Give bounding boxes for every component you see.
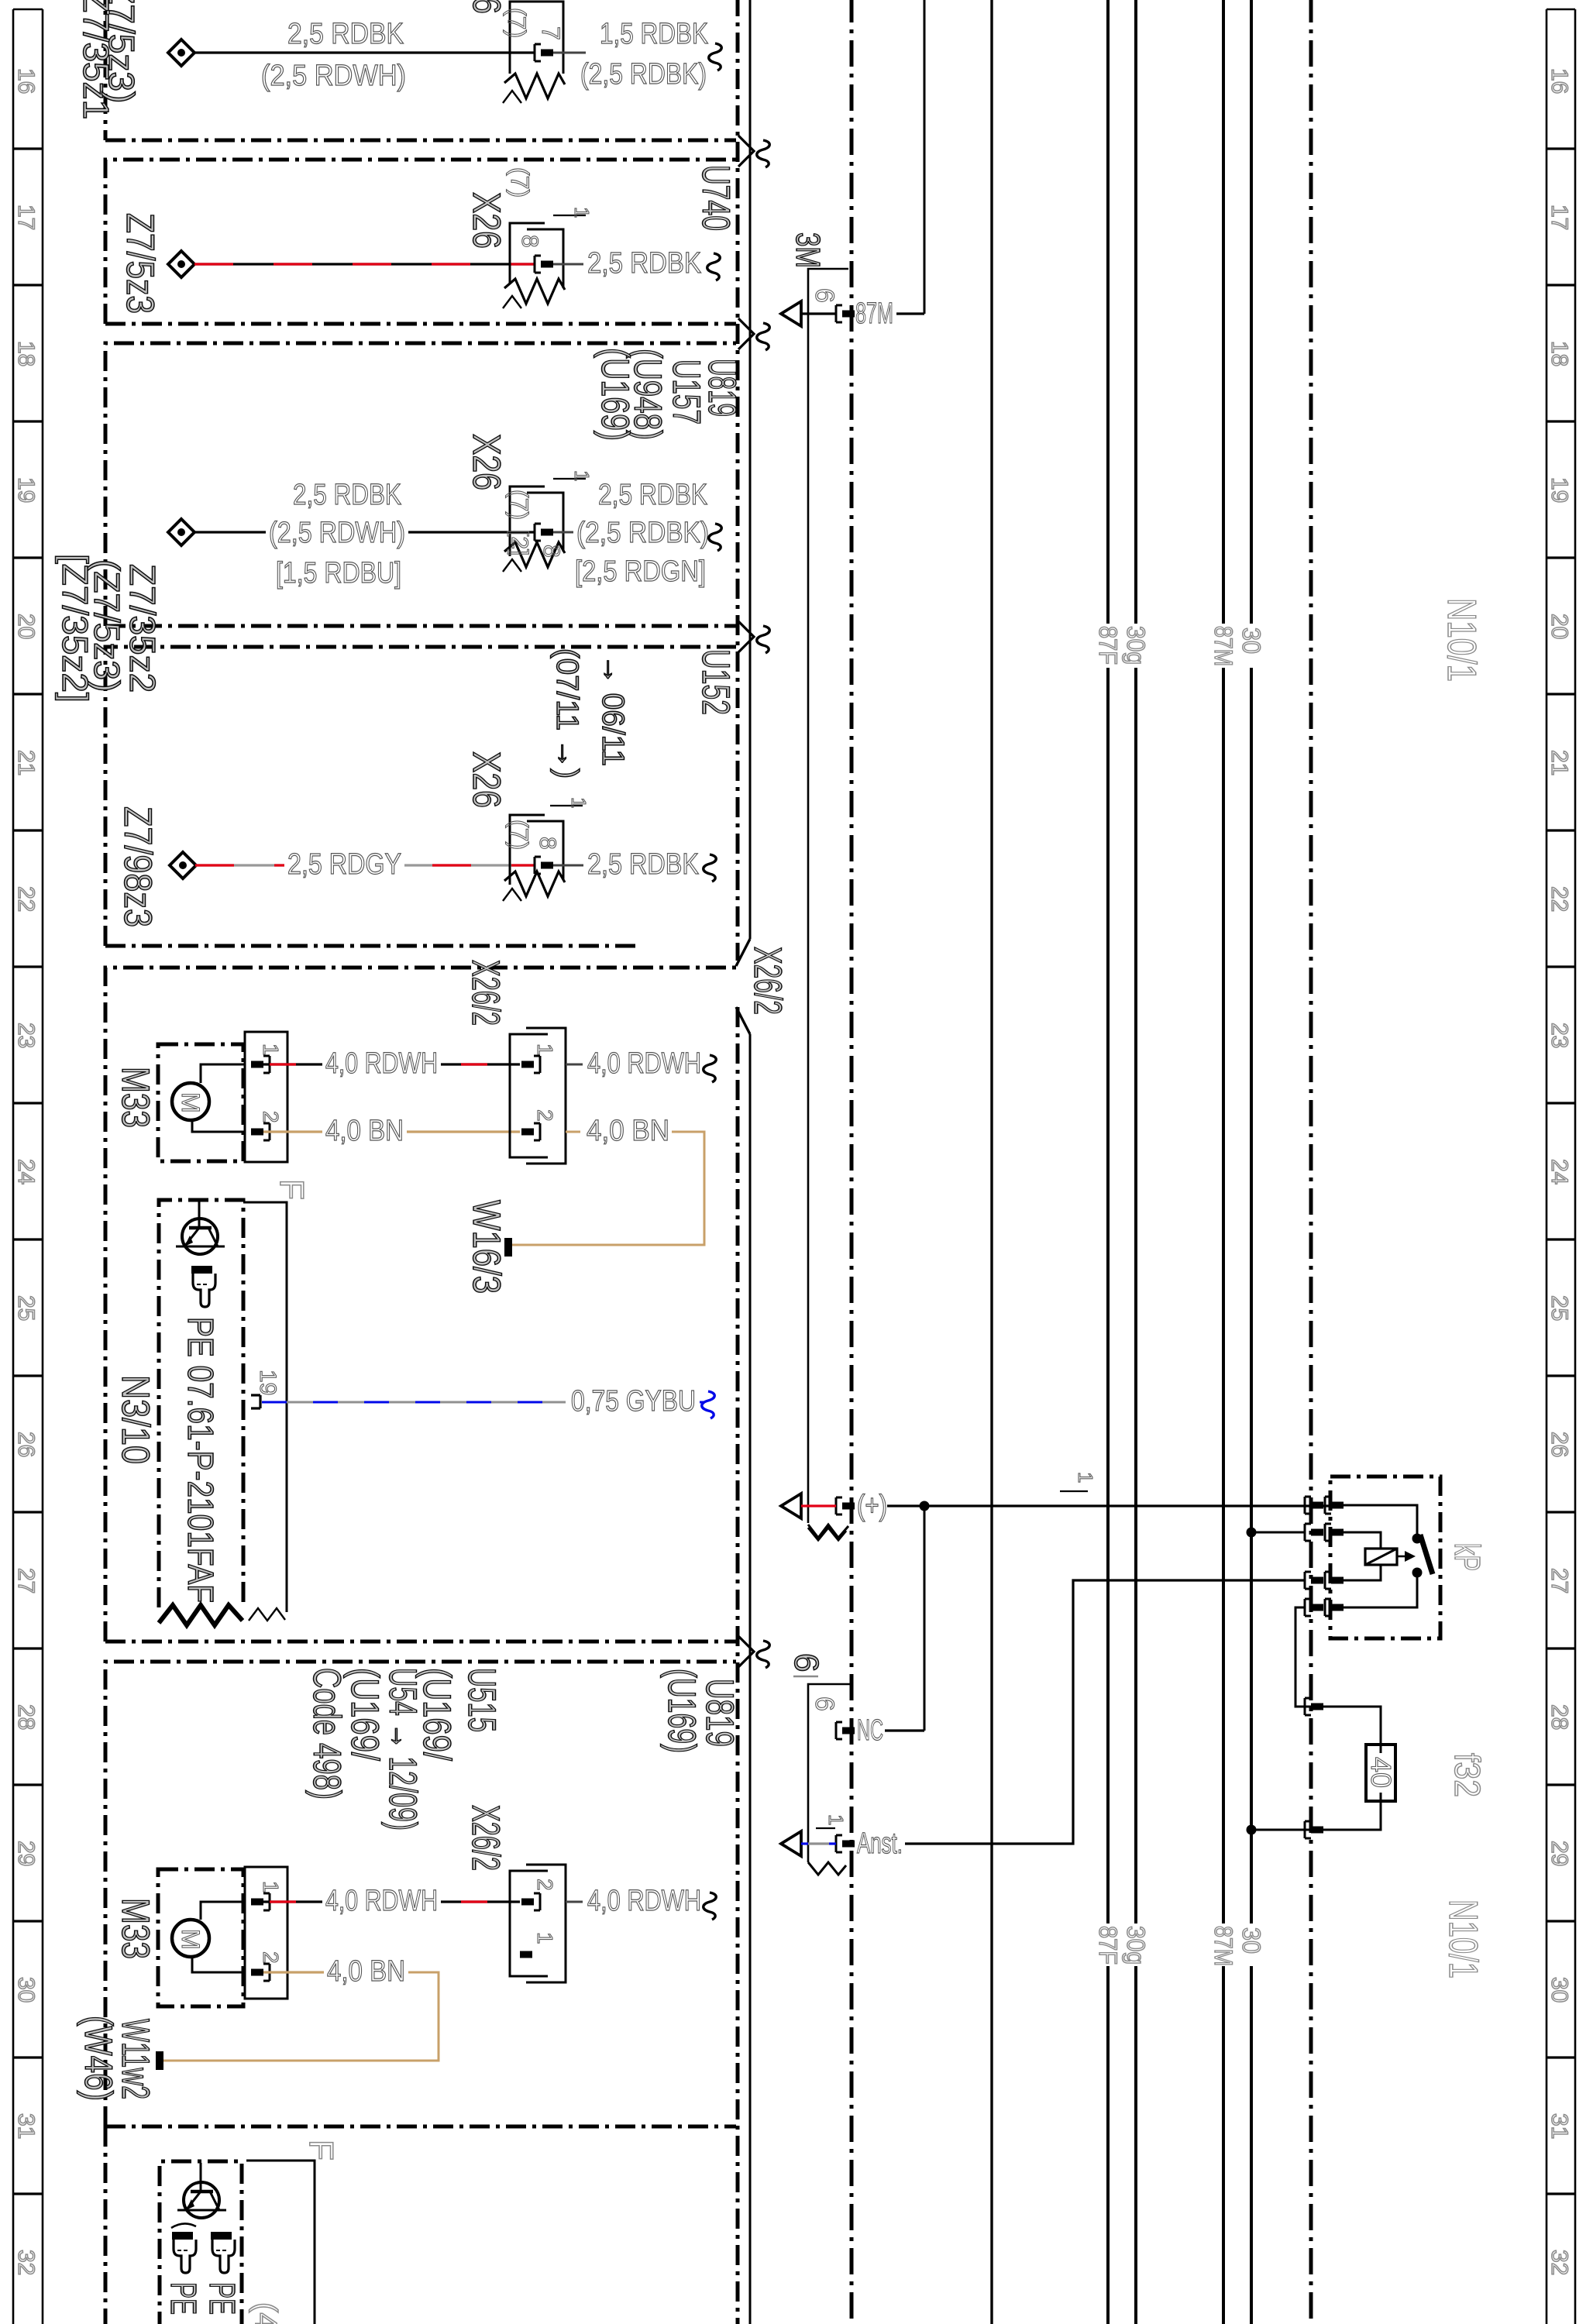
svg-text:1: 1 [567,797,590,808]
svg-text:30: 30 [1547,1977,1572,2003]
connector motor side first box [245,1032,287,1162]
svg-text:NC: NC [857,1714,883,1747]
svg-text:2,5 RDBK: 2,5 RDBK [293,479,401,511]
svg-text:26: 26 [1547,1432,1572,1457]
pin kP 2 [1325,1524,1331,1541]
svg-text:30: 30 [13,1977,39,2003]
node kP contact upper [1412,1534,1423,1544]
svg-text:(2,5 RDBK): (2,5 RDBK) [580,58,707,91]
connector X26 row16 box [510,2,563,74]
node bus30 junction fuse [1247,1825,1257,1835]
svg-text:F: F [302,2140,340,2161]
wire bus30 to coil [1254,1532,1305,1534]
svg-text:Z7/35z2: Z7/35z2 [122,564,163,693]
node kP contact lower [1412,1568,1423,1578]
relay kP lever [1420,1535,1433,1574]
label 0,75 GYBU [568,1387,699,1417]
pin 1 tick row21 [550,805,583,806]
box U515 group rows23-27 borders [105,968,736,1642]
svg-text:(2,5 RDBK): (2,5 RDBK) [576,517,709,549]
wire row21 right [553,865,583,867]
connector X26 row17 box [510,223,563,288]
svg-text:30: 30 [1237,1927,1265,1954]
svg-text:4,0 RDWH: 4,0 RDWH [325,1885,438,1917]
pin tick 1 near Anst [816,1827,835,1829]
svg-text:1: 1 [570,470,594,481]
wire end squiggle row21 [704,854,717,882]
svg-text:87M: 87M [1209,626,1237,666]
X26/2 harness break hooks [736,939,750,966]
svg-text:2: 2 [533,1879,557,1891]
svg-text:X26: X26 [465,751,508,808]
svg-text:21: 21 [1547,750,1572,775]
svg-text:U819: U819 [698,1679,741,1747]
svg-text:X26: X26 [465,192,508,249]
svg-text:(+): (+) [857,1490,887,1522]
pin kP 4 [1325,1599,1331,1616]
arrow Anst continuation [781,1831,801,1856]
label 4,0 RDWH second left [322,1887,441,1917]
connector X26 row19 box [510,486,563,556]
hand symbol PE 1 [172,2232,193,2240]
arrow 87M continuation [781,301,801,326]
svg-text:M: M [177,1092,205,1113]
svg-text:22: 22 [1547,886,1572,912]
svg-text:8: 8 [535,837,560,850]
svg-text:M33: M33 [114,1067,157,1128]
pin row21 contact [535,857,541,874]
wire Anst to kP [905,1580,1305,1844]
module N10/1 outer boundary dash-dot [850,0,854,2324]
svg-text:4,0 BN: 4,0 BN [587,1115,669,1147]
pin 19 N3/10 [251,1395,260,1408]
pin row19 contact [535,524,541,541]
pin kP 1 [1325,1497,1331,1514]
wire (+) to NC riser [924,1506,926,1731]
wire 4,0 RDWH first left [263,1063,520,1065]
svg-text:27: 27 [1547,1568,1572,1593]
label 4,0 BN second [324,1958,408,1987]
svg-text:2,5 RDGY: 2,5 RDGY [287,848,401,881]
bus 87M [1222,0,1225,624]
node Z7/98z3 terminal diamond [170,852,196,878]
svg-text:87F: 87F [1094,1926,1122,1965]
wire NC [885,1729,924,1731]
svg-text:3M: 3M [789,232,827,268]
label 2,5 RDGY [284,851,404,880]
connector 3M housing [808,269,848,1523]
svg-text:31: 31 [1547,2113,1572,2139]
svg-text:87M: 87M [1209,1926,1237,1966]
component M33 motor box [158,1044,243,1161]
svg-text:32: 32 [13,2250,39,2275]
svg-text:(U169): (U169) [594,348,637,441]
wire unlabeled bus [990,0,993,2324]
svg-text:29: 29 [13,1841,39,1866]
ruler right frame [1546,9,1548,2324]
wire 4,0 BN first right [566,1131,580,1133]
svg-text:[2]: [2] [507,530,532,555]
svg-text:30g: 30g [1122,626,1150,665]
svg-text:U157: U157 [665,359,708,425]
svg-text:18: 18 [13,341,39,366]
svg-text:1: 1 [533,1043,557,1056]
ruler left frame [12,9,15,2324]
pin 1 motor conn second [263,1893,270,1910]
svg-text:1: 1 [570,207,594,218]
hand symbol PE 2 [211,2232,232,2240]
svg-text:2: 2 [259,1111,283,1123]
wire 4,0 BN second [263,1971,408,1973]
wire row17 right [553,263,583,266]
svg-text:28: 28 [1547,1704,1572,1730]
svg-text:X26: X26 [465,0,508,14]
wire 4,0 RDWH second left [263,1900,520,1903]
label (2,5 RDBK) row19 [573,519,712,548]
svg-text:24: 24 [13,1159,39,1184]
svg-text:1: 1 [259,1043,283,1056]
svg-text:1: 1 [1074,1472,1097,1483]
wire 2,5 RDBK row19 left [194,531,535,533]
svg-text:1: 1 [824,1814,848,1825]
wire X26 harness solid edge [749,0,752,939]
svg-text:21: 21 [13,750,39,775]
svg-text:19: 19 [13,477,39,503]
svg-text:6: 6 [810,1697,839,1711]
transistor symbol PE box [184,2182,219,2218]
svg-text:(Z7/5z3): (Z7/5z3) [101,0,142,103]
svg-text:[1,5 RDBU]: [1,5 RDBU] [276,557,401,590]
hand symbol N3/10 [191,1266,212,1274]
wire 4,0 RDWH second right [566,1901,583,1903]
svg-text:Z7/5z3: Z7/5z3 [119,213,162,314]
svg-text:(W46): (W46) [77,2016,120,2101]
wire kP common [1344,1505,1417,1535]
wire 0,75 GYBU [262,1401,566,1404]
svg-text:kP: kP [1447,1543,1488,1571]
svg-text:U740: U740 [694,165,738,231]
svg-text:19: 19 [255,1370,280,1395]
svg-text:X26/2: X26/2 [464,1805,507,1871]
pin 1 X26/2 first [534,1056,540,1073]
zigzag 3M housing end [808,1528,846,1540]
pin NC bracket [836,1722,842,1739]
wire kP output [1344,1576,1417,1607]
svg-text:1: 1 [259,1881,283,1893]
wire 87M [801,312,836,315]
svg-text:N10/1: N10/1 [1440,1899,1485,1978]
wire end squiggle row17 [707,253,721,280]
box F frame second [246,2161,315,2324]
svg-text:24: 24 [1547,1159,1572,1184]
pin 1 tick row19 [553,478,586,480]
svg-text:2: 2 [259,1951,283,1964]
svg-text:→ 06/11: → 06/11 [596,655,630,766]
node bus30 junction coil [1247,1528,1257,1538]
svg-text:[Z7/35z2]: [Z7/35z2] [55,554,95,703]
pin 1 motor conn first [263,1056,270,1073]
pin module coil x1692 [1305,1524,1311,1541]
svg-text:28: 28 [13,1704,39,1730]
wire 4,0 BN first left [263,1130,520,1133]
pin 1 tick row17 [553,215,586,216]
label 4,0 RDWH first left [322,1050,441,1079]
svg-text:M: M [177,1929,205,1950]
wire row19 right [553,531,573,534]
svg-text:X26/2: X26/2 [464,960,507,1026]
svg-text:0,75 GYBU: 0,75 GYBU [571,1385,696,1418]
wire end squiggle GYBU [702,1391,715,1418]
svg-text:N10/1: N10/1 [1439,598,1484,682]
svg-text:U54 → 12/09): U54 → 12/09) [381,1668,425,1831]
relay kP coil arrow [1397,1556,1409,1558]
node (+) junction [920,1501,930,1511]
node Z7/35z2 terminal diamond [168,519,194,545]
label 2,5 RDBK row21 [584,851,702,880]
wire 4,0 RDWH first right [566,1064,583,1066]
svg-text:30g: 30g [1122,1926,1150,1965]
svg-text:N3/10: N3/10 [114,1375,157,1464]
pin kP 3 [1325,1572,1331,1589]
pin module kPout x1692 [1305,1599,1311,1616]
pin module (+) x1692 [1305,1497,1311,1514]
svg-text:Anst.: Anst. [857,1827,903,1860]
svg-text:18: 18 [1547,341,1572,366]
pin 2 motor conn first [263,1123,270,1140]
svg-text:4,0 RDWH: 4,0 RDWH [587,1047,701,1080]
svg-text:4,0 BN: 4,0 BN [327,1955,405,1988]
pin 87M bracket [836,305,842,322]
connector X26/2 first box [510,1034,548,1157]
label (2,5 RDWH) row19 [266,519,408,548]
relay kP box [1330,1477,1440,1638]
svg-text:32: 32 [1547,2250,1572,2275]
svg-text:2,5 RDBK: 2,5 RDBK [587,247,701,280]
svg-text:(07/11 →): (07/11 →) [550,648,584,779]
pin row16 contact [535,44,541,61]
svg-text:2,5 RDBK: 2,5 RDBK [587,848,699,881]
wire end squiggle RDWH second [704,1893,717,1920]
svg-text:W16/3: W16/3 [465,1200,508,1294]
svg-text:40: 40 [1365,1757,1397,1788]
wire 2,5 RDBK row16 left [194,51,535,53]
svg-text:X26/2: X26/2 [746,947,790,1015]
box U819 group rows28-31 borders [105,1662,736,2126]
motor M symbol second [172,1920,209,1957]
pin row17 contact [535,256,541,273]
pin 1 X26/2 second unused [520,1951,532,1958]
component M33 motor box second [158,1869,243,2006]
wire X26 harness boundary dash-dot [736,0,740,961]
svg-text:f32: f32 [1447,1753,1488,1797]
svg-text:(U169/: (U169/ [343,1668,387,1761]
harness chevron row27/28 [738,1636,754,1667]
bus 30 [1250,0,1253,624]
harness chevron row17/18 [738,318,754,349]
svg-text:4,0 BN: 4,0 BN [325,1115,404,1147]
harness chevron row19/20 [738,621,754,652]
svg-text:8: 8 [517,235,542,248]
svg-text:Code 498): Code 498) [305,1668,349,1800]
svg-text:(U169): (U169) [660,1669,704,1753]
wire 1,5 RDBK row16 right [553,52,586,54]
arrow (+) continuation [781,1494,801,1518]
svg-text:[2,5 RDGN]: [2,5 RDGN] [575,555,706,588]
bus 30g [1134,0,1137,624]
svg-text:16: 16 [13,68,39,94]
node Z7/35z1 terminal diamond [168,40,194,66]
svg-text:87F: 87F [1094,626,1122,665]
svg-text:8: 8 [538,545,564,558]
pin 2 X26/2 second [534,1893,540,1910]
svg-text:PE: PE [163,2282,204,2315]
svg-text:23: 23 [1547,1023,1572,1048]
svg-text:(7): (7) [506,167,534,198]
svg-text:2,5 RDBK: 2,5 RDBK [598,479,707,511]
box U819 U157 group borders [105,343,736,626]
harness chevron row16/17 [738,136,754,167]
wire end squiggle row16 [709,43,722,70]
connector 6 housing [808,1684,851,1862]
pin module fuse-bot x1692 [1305,1821,1311,1838]
pin module fuse-top x1692 [1305,1698,1311,1715]
svg-text:2: 2 [533,1109,557,1122]
svg-text:6: 6 [787,1653,825,1672]
ground W16/3 [504,1238,512,1257]
svg-text:2,5 RDBK: 2,5 RDBK [287,18,404,50]
wire kP to fuse [1295,1607,1366,1707]
svg-text:1,5 RDBK: 1,5 RDBK [600,18,708,50]
connector X26 row21 box [510,815,563,885]
svg-text:4,0 RDWH: 4,0 RDWH [325,1047,438,1080]
wire end squiggle row19 [709,524,722,551]
svg-text:17: 17 [13,205,39,230]
pin 2 X26/2 first [534,1123,540,1140]
pin tick 1 near (+) [1060,1490,1088,1492]
wire fuse top lead [1366,1707,1381,1745]
box U740 group row17 borders [105,160,736,324]
svg-text:23: 23 [13,1023,39,1048]
svg-text:(7): (7) [503,8,531,38]
module N10/1 inner boundary dash-dot [1309,0,1313,2324]
svg-text:(2,5 RDWH): (2,5 RDWH) [269,517,405,549]
svg-text:7: 7 [537,26,565,40]
wire coil return [1344,1565,1381,1580]
transistor symbol N3/10 [182,1219,218,1254]
wire (+) red tail [801,1504,836,1507]
svg-text:27: 27 [13,1568,39,1593]
svg-text:25: 25 [1547,1295,1572,1321]
node Z7/5z3 terminal diamond [168,251,194,277]
svg-text:X26: X26 [465,434,508,490]
label 4,0 BN first left [322,1117,407,1147]
zigzag 6 housing end [808,1862,846,1875]
svg-text:1: 1 [533,1932,557,1944]
svg-text:(7): (7) [505,820,533,850]
pin Anst bracket [836,1835,842,1852]
box bottom group row32 border [104,2126,108,2324]
pin module Anst x1692 [1305,1572,1311,1589]
connector X26/2 second box [510,1871,548,1976]
svg-text:F: F [273,1179,311,1200]
box F frame first [243,1202,287,1612]
svg-text:29: 29 [1547,1841,1572,1866]
svg-text:Z7/98z3: Z7/98z3 [116,806,160,927]
wire fuse bottom lead [1254,1801,1381,1830]
svg-text:M33: M33 [114,1898,157,1959]
fuse f32 body [1366,1745,1395,1801]
svg-text:(4: (4 [249,2302,283,2324]
arc above hands [171,2223,196,2228]
svg-text:PE: PE [202,2282,243,2315]
svg-text:U515: U515 [460,1668,504,1732]
svg-text:22: 22 [13,886,39,912]
pin (+) bracket [836,1497,842,1514]
relay kP coil [1365,1549,1397,1565]
svg-text:20: 20 [13,614,39,639]
wire (+) to kP [887,1504,1330,1507]
module N3/10 bottom zigzag [159,1605,243,1625]
svg-text:6: 6 [810,288,839,303]
svg-text:U152: U152 [694,649,738,715]
wire 2,5 RDGY row21 [195,864,535,866]
wire coil feed [1344,1532,1381,1549]
bus 87F [1106,0,1110,624]
box U740 group row16 borders [104,0,108,140]
wire 2,5 RDBK row17 redblack [194,263,535,265]
motor M symbol first [172,1083,209,1120]
module N3/10 box [159,1200,243,1607]
svg-text:25: 25 [13,1295,39,1321]
svg-text:87M: 87M [855,297,893,330]
module PE box bottom [160,2161,242,2324]
svg-text:31: 31 [13,2113,39,2139]
svg-text:17: 17 [1547,205,1572,230]
wire 87M riser [924,0,926,314]
box U152 group borders [105,647,736,946]
svg-text:16: 16 [1547,68,1572,94]
svg-text:PE 07.61-P-2101FAF: PE 07.61-P-2101FAF [181,1317,221,1603]
wire Anst colored tail [801,1842,808,1844]
wire motor leads second [201,1902,245,1920]
svg-text:(7): (7) [505,490,533,520]
svg-text:(2,5 RDWH): (2,5 RDWH) [261,60,406,92]
connector motor side second box [245,1867,287,1999]
pin 2 motor conn second [263,1964,270,1981]
svg-text:4,0 RDWH: 4,0 RDWH [587,1885,701,1917]
svg-text:30: 30 [1237,627,1265,654]
svg-text:26: 26 [13,1432,39,1457]
svg-text:19: 19 [1547,477,1572,503]
ground W11w2 [156,2051,163,2070]
svg-text:20: 20 [1547,614,1572,639]
wire motor leads first [201,1064,245,1083]
wire end squiggle RDWH first [704,1055,717,1082]
